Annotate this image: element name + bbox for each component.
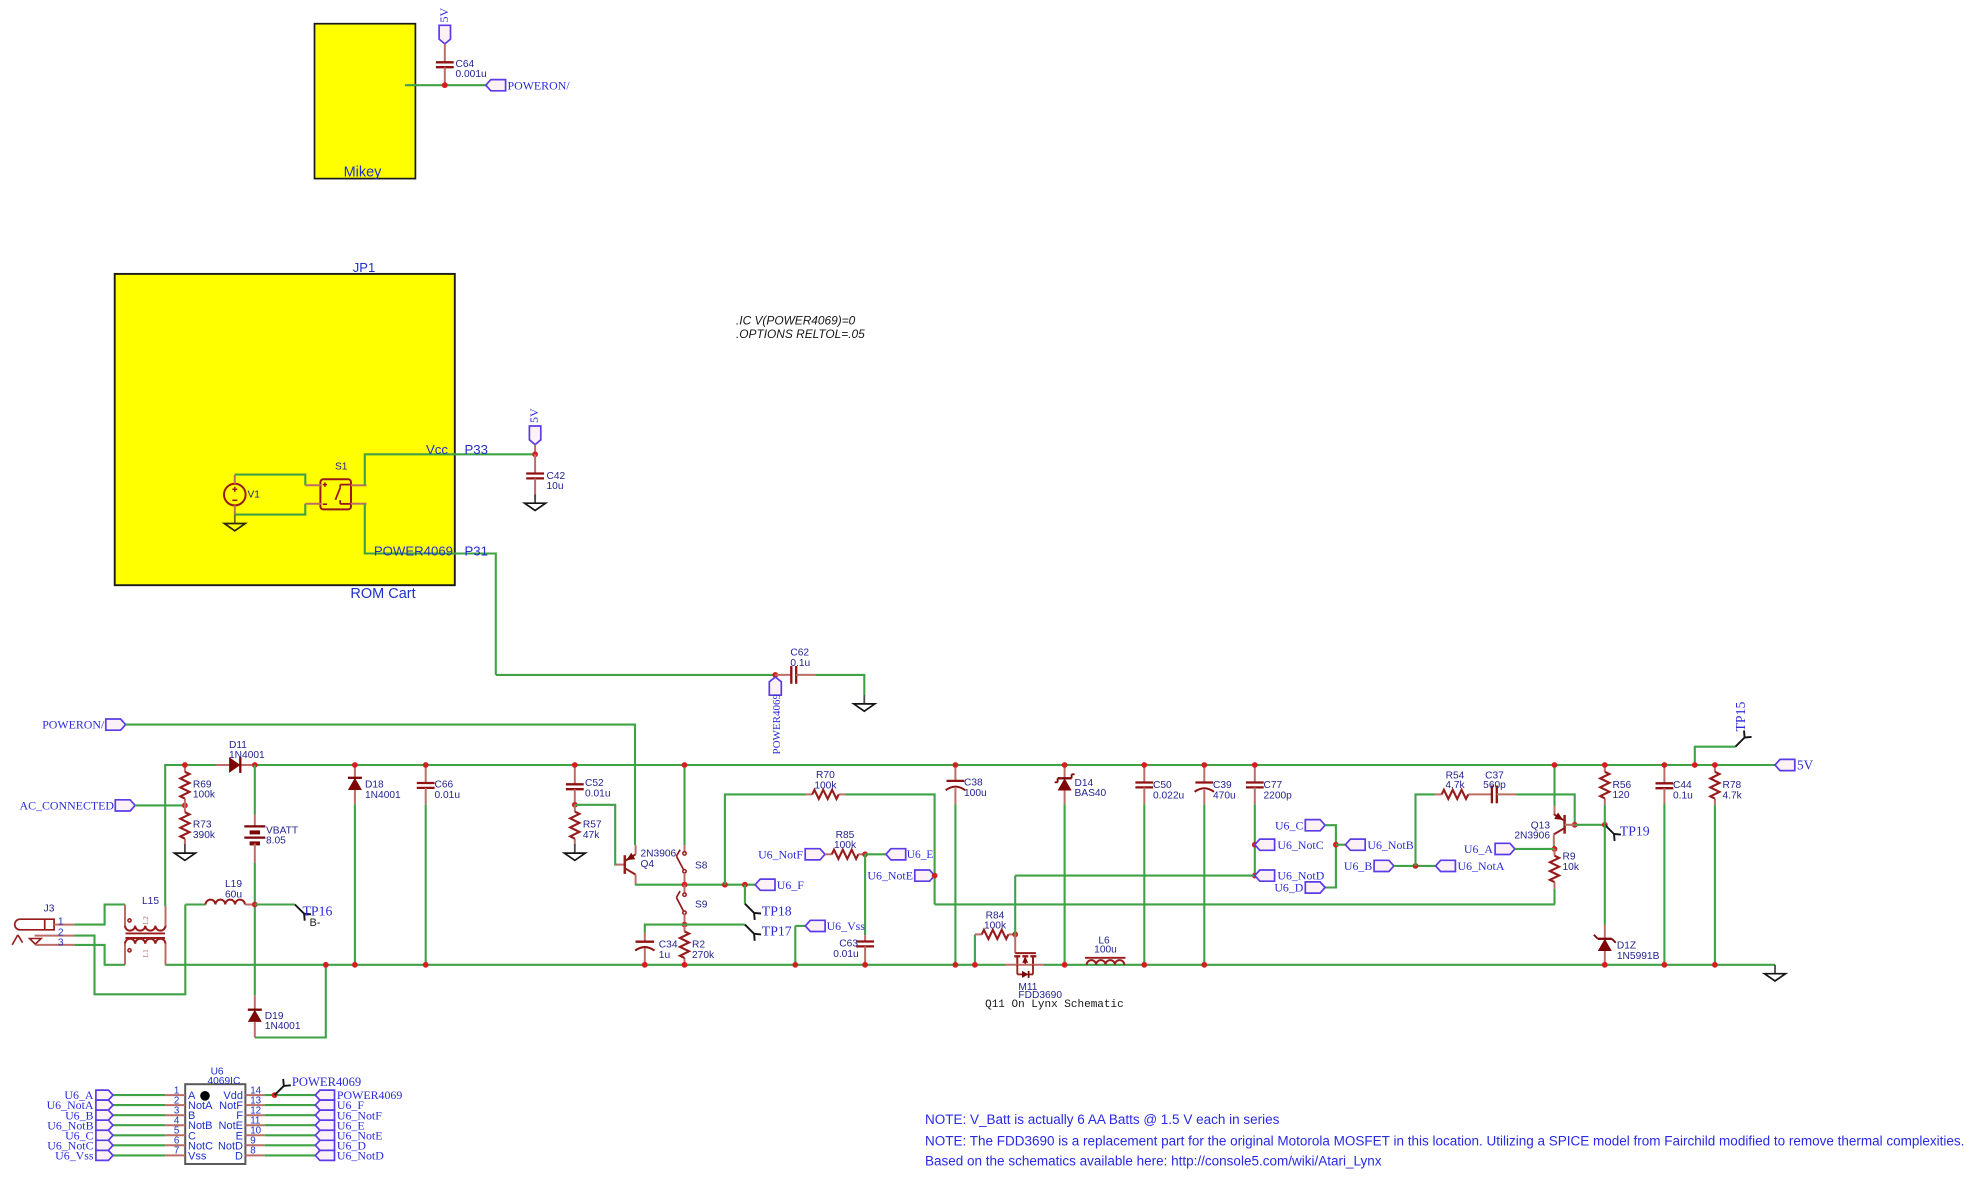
wire	[255, 965, 326, 1038]
junction	[862, 851, 868, 857]
pin 9 NotD	[245, 1144, 264, 1146]
svg-text:U6_NotE: U6_NotE	[867, 869, 913, 883]
capacitor C38	[954, 765, 956, 781]
svg-text:L2: L2	[141, 916, 150, 925]
junction	[352, 962, 358, 968]
svg-text:D: D	[235, 1150, 243, 1162]
wire	[74, 945, 125, 965]
svg-text:U6_Vss: U6_Vss	[827, 919, 866, 933]
diode D11	[216, 764, 255, 766]
junction	[532, 451, 538, 457]
block JP1 ROM Cart	[115, 274, 455, 585]
capacitor C64	[436, 61, 454, 63]
wire	[635, 884, 755, 886]
global label U6_NotF	[315, 1110, 334, 1120]
global label U6_E	[886, 849, 906, 860]
wire	[1254, 804, 1256, 875]
resistor R85	[825, 853, 832, 855]
junction	[1141, 762, 1147, 768]
junction	[1602, 822, 1608, 828]
pin 14 Vdd	[245, 1094, 264, 1096]
pin 3 B	[165, 1114, 185, 1116]
wire	[165, 964, 1005, 966]
global label 5V (right)	[1775, 759, 1795, 770]
wire	[255, 903, 295, 905]
transistor Q4	[615, 864, 625, 866]
junction	[642, 962, 648, 968]
resistor R57	[574, 805, 576, 812]
wire	[645, 925, 685, 933]
capacitor C77	[1254, 765, 1256, 783]
global label POWER4069	[315, 1090, 334, 1100]
junction	[1602, 762, 1608, 768]
capacitor C44	[1663, 765, 1665, 783]
svg-text:2N3906: 2N3906	[641, 849, 677, 860]
junction	[1712, 762, 1718, 768]
global label U6_B	[96, 1110, 113, 1120]
ic U6 4069IC	[185, 1084, 245, 1164]
global label U6_NotA	[1436, 860, 1456, 871]
wire	[254, 765, 256, 815]
svg-text:4069IC: 4069IC	[207, 1076, 240, 1087]
svg-text:0.022u: 0.022u	[1153, 790, 1184, 801]
junction	[682, 922, 688, 928]
wire	[1575, 824, 1605, 826]
connector J3	[15, 919, 54, 930]
capacitor C39	[1203, 765, 1205, 783]
global label U6_A	[96, 1090, 113, 1100]
junction	[1012, 932, 1018, 938]
svg-text:5V: 5V	[1797, 758, 1814, 773]
junction	[1252, 873, 1258, 879]
capacitor C50	[1143, 765, 1145, 783]
svg-text:POWER4069: POWER4069	[771, 694, 783, 755]
resistor R78	[1714, 765, 1716, 772]
svg-text:Based on the schematics availa: Based on the schematics available here: …	[925, 1154, 1382, 1169]
global label U6_NotC	[96, 1140, 113, 1150]
svg-text:P33: P33	[465, 442, 488, 457]
svg-text:100k: 100k	[984, 921, 1007, 932]
diode D18	[354, 765, 356, 778]
svg-text:0.001u: 0.001u	[456, 69, 487, 80]
wire	[113, 1104, 165, 1106]
svg-text:B-: B-	[310, 917, 321, 929]
power 5V (C42)	[529, 426, 540, 445]
svg-text:U6_Vss: U6_Vss	[55, 1149, 94, 1163]
svg-text:270k: 270k	[692, 950, 715, 961]
resistor R56	[1604, 765, 1606, 772]
svg-text:100k: 100k	[814, 780, 837, 791]
wire	[1416, 794, 1435, 866]
test point TP19	[1605, 825, 1614, 834]
junction	[572, 762, 578, 768]
ground (bottom right)	[1774, 965, 1776, 974]
wire	[1553, 765, 1555, 806]
junction	[862, 962, 868, 968]
diode D19	[254, 995, 256, 1010]
svg-text:Mikey: Mikey	[344, 165, 383, 181]
pin 11 NotE	[245, 1124, 264, 1126]
junction	[352, 762, 358, 768]
svg-text:470u: 470u	[1213, 790, 1236, 801]
svg-text:BAS40: BAS40	[1075, 788, 1107, 799]
junction	[572, 802, 578, 808]
svg-text:60u: 60u	[225, 889, 242, 900]
svg-text:Q4: Q4	[641, 859, 655, 870]
diode D14 (schottky)	[1064, 765, 1066, 778]
junction	[272, 1092, 278, 1098]
wire	[1604, 805, 1606, 825]
junction	[252, 902, 258, 908]
pin 10 E	[245, 1134, 264, 1136]
wire	[265, 1104, 316, 1106]
wire	[1714, 805, 1716, 964]
svg-text:2200p: 2200p	[1264, 790, 1293, 801]
svg-text:V1: V1	[248, 490, 261, 501]
junction	[722, 882, 728, 888]
svg-text:U6_NotA: U6_NotA	[1458, 859, 1505, 873]
svg-text:8.05: 8.05	[266, 836, 286, 847]
svg-text:POWERON/: POWERON/	[508, 78, 571, 92]
switch S1	[320, 479, 351, 509]
wire	[405, 84, 486, 86]
svg-text:0.1u: 0.1u	[1673, 790, 1693, 801]
svg-text:JP1: JP1	[353, 260, 375, 275]
svg-text:.IC V(POWER4069)=0: .IC V(POWER4069)=0	[736, 314, 856, 328]
svg-text:1N4001: 1N4001	[365, 790, 401, 801]
wire	[113, 1124, 165, 1126]
svg-text:390k: 390k	[193, 830, 216, 841]
svg-text:1u: 1u	[659, 950, 670, 961]
resistor R54	[1435, 793, 1442, 795]
global label U6_D	[315, 1140, 334, 1150]
wire	[1604, 825, 1606, 925]
test point TP17	[745, 925, 754, 934]
wire	[254, 863, 256, 995]
svg-text:Q11 On Lynx Schematic: Q11 On Lynx Schematic	[985, 999, 1124, 1011]
svg-text:100k: 100k	[834, 840, 857, 851]
global label U6_NotA	[96, 1100, 113, 1110]
global label U6_NotC	[1255, 839, 1275, 850]
junction	[1692, 762, 1698, 768]
junction	[442, 82, 448, 88]
wire	[354, 804, 356, 965]
wire	[1663, 804, 1665, 965]
svg-text:P31: P31	[465, 543, 488, 558]
pin 12 F	[245, 1114, 264, 1116]
wire	[1336, 844, 1346, 846]
svg-text:L15: L15	[142, 896, 159, 907]
wire	[185, 903, 205, 905]
wire	[113, 1134, 165, 1136]
svg-text:Vss: Vss	[188, 1150, 207, 1162]
wire	[265, 1154, 316, 1156]
wire	[165, 765, 1775, 906]
voltage source V1	[224, 484, 246, 506]
test point TP16	[295, 905, 304, 914]
junction	[423, 962, 429, 968]
wire	[725, 794, 806, 884]
wire	[1695, 747, 1736, 765]
wire	[74, 905, 125, 925]
svg-text:U6_NotF: U6_NotF	[758, 847, 803, 861]
svg-text:NOTE: The FDD3690 is a replace: NOTE: The FDD3690 is a replacement part …	[925, 1134, 1964, 1149]
wire	[865, 853, 886, 855]
wire	[265, 1134, 316, 1136]
switch S9	[684, 885, 686, 893]
svg-text:L1: L1	[141, 949, 150, 958]
svg-text:100k: 100k	[193, 790, 216, 801]
wire	[265, 1144, 316, 1146]
svg-text:47k: 47k	[583, 830, 600, 841]
wire	[1553, 889, 1555, 905]
wire	[235, 504, 305, 515]
svg-text:TP15: TP15	[1733, 702, 1748, 732]
wire	[113, 1114, 165, 1116]
svg-text:1: 1	[58, 916, 64, 927]
junction	[742, 882, 748, 888]
svg-text:1N5991B: 1N5991B	[1617, 951, 1660, 962]
wire	[1014, 876, 1016, 935]
global label U6_E	[315, 1120, 334, 1130]
wire	[846, 794, 935, 904]
capacitor C37	[1475, 793, 1492, 795]
junction	[1712, 962, 1718, 968]
junction	[1552, 846, 1558, 852]
pin 1 A	[165, 1094, 185, 1096]
wire	[685, 924, 745, 926]
svg-text:7: 7	[174, 1146, 179, 1157]
wire	[1394, 865, 1436, 867]
junction	[792, 962, 798, 968]
junction	[1062, 762, 1068, 768]
svg-text:TP18: TP18	[762, 903, 792, 918]
svg-text:U6_A: U6_A	[1464, 842, 1493, 856]
wire	[1044, 964, 1775, 966]
power 5V (Mikey)	[439, 25, 450, 44]
capacitor C52	[574, 765, 576, 784]
block Mikey	[315, 24, 416, 179]
svg-text:4.7k: 4.7k	[1723, 790, 1743, 801]
global label U6_NotE	[315, 1130, 334, 1140]
svg-text:S9: S9	[695, 900, 708, 911]
svg-text:5V: 5V	[527, 408, 541, 423]
wire	[135, 804, 185, 806]
junction	[1141, 962, 1147, 968]
svg-text:0.01u: 0.01u	[585, 788, 611, 799]
junction	[1572, 822, 1578, 828]
svg-text:U6_E: U6_E	[907, 849, 934, 861]
junction	[1333, 842, 1339, 848]
svg-text:TP17: TP17	[762, 923, 792, 938]
junction	[182, 803, 188, 809]
wire	[113, 1094, 165, 1096]
global label U6_NotB	[96, 1120, 113, 1130]
junction	[182, 762, 188, 768]
global label U6_F	[755, 879, 775, 890]
mosfet M11	[1014, 934, 1016, 953]
wire	[265, 1124, 316, 1126]
svg-text:.OPTIONS RELTOL=.05: .OPTIONS RELTOL=.05	[736, 327, 865, 341]
junction	[682, 762, 688, 768]
junction	[323, 962, 329, 968]
svg-text:1N4001: 1N4001	[229, 750, 265, 761]
wire	[974, 934, 976, 964]
svg-text:POWERON/: POWERON/	[42, 718, 105, 732]
global label POWER4069 (vertical)	[769, 677, 781, 695]
wire	[74, 905, 185, 995]
wire	[1064, 804, 1066, 965]
wire	[816, 675, 865, 695]
svg-text:U6_NotD: U6_NotD	[337, 1149, 384, 1163]
wire	[235, 475, 305, 486]
wire	[864, 854, 866, 935]
junction	[682, 962, 688, 968]
svg-text:POWER4069: POWER4069	[374, 543, 453, 558]
svg-text:TP19: TP19	[1620, 824, 1650, 839]
wire	[1553, 845, 1556, 849]
wire	[365, 504, 496, 675]
global label U6_Vss	[96, 1150, 113, 1160]
svg-text:U6_C: U6_C	[1275, 818, 1303, 832]
wire	[113, 1154, 165, 1156]
svg-text:U6_F: U6_F	[777, 878, 804, 892]
wire	[794, 926, 796, 965]
wire	[425, 804, 427, 965]
ground (C42)	[534, 494, 536, 503]
wire	[954, 804, 956, 965]
junction	[972, 962, 978, 968]
wire	[1203, 804, 1205, 965]
junction	[772, 672, 778, 678]
junction	[1602, 962, 1608, 968]
svg-text:S1: S1	[335, 462, 348, 473]
wire	[795, 925, 805, 927]
svg-text:0.01u: 0.01u	[833, 949, 859, 960]
svg-text:U6_D: U6_D	[1274, 881, 1303, 895]
wire	[496, 674, 776, 676]
junction	[953, 962, 959, 968]
diode D1Z (zener)	[1604, 925, 1606, 939]
ground (R57)	[574, 844, 576, 853]
junction	[1662, 962, 1668, 968]
svg-text:2N3906: 2N3906	[1514, 831, 1550, 842]
junction	[252, 762, 258, 768]
svg-text:0.1u: 0.1u	[790, 658, 810, 669]
wire	[126, 725, 635, 846]
wire	[575, 805, 617, 865]
resistor R9	[1554, 849, 1556, 856]
svg-text:NOTE: V_Batt is actually 6 AA: NOTE: V_Batt is actually 6 AA Batts @ 1.…	[925, 1112, 1280, 1127]
resistor R69	[184, 765, 186, 772]
svg-text:100u: 100u	[1094, 945, 1117, 956]
wire	[1015, 875, 1255, 877]
junction	[1252, 842, 1258, 848]
global label U6_F	[315, 1100, 334, 1110]
junction	[423, 762, 429, 768]
svg-text:5V: 5V	[437, 8, 451, 23]
wire	[1143, 804, 1145, 965]
ground (V1)	[234, 515, 236, 524]
svg-text:4.7k: 4.7k	[1445, 780, 1465, 791]
svg-text:560p: 560p	[1483, 780, 1506, 791]
junction	[682, 882, 688, 888]
global label U6_C	[96, 1130, 113, 1140]
svg-text:Vcc: Vcc	[426, 442, 448, 457]
pin 6 NotC	[165, 1144, 185, 1146]
wire	[265, 1094, 316, 1096]
svg-text:U6_NotB: U6_NotB	[1367, 838, 1413, 852]
capacitor C34	[644, 933, 646, 942]
svg-text:S8: S8	[695, 861, 708, 872]
wire	[1325, 825, 1336, 887]
wire	[935, 903, 1555, 905]
wire	[113, 1144, 165, 1146]
junction	[1201, 762, 1207, 768]
wire	[365, 454, 535, 485]
resistor R2	[684, 925, 686, 932]
svg-text:U6_NotC: U6_NotC	[1277, 838, 1323, 852]
pin 5 C	[165, 1134, 185, 1136]
svg-text:J3: J3	[44, 904, 55, 915]
wire	[1515, 848, 1555, 850]
junction	[953, 762, 959, 768]
global label U6_NotD	[315, 1150, 334, 1160]
svg-text:120: 120	[1613, 790, 1630, 801]
junction	[1201, 962, 1207, 968]
svg-text:ROM Cart: ROM Cart	[350, 586, 415, 602]
svg-text:U6_B: U6_B	[1344, 859, 1372, 873]
capacitor C42	[534, 454, 536, 473]
junction	[932, 873, 938, 879]
junction	[1662, 762, 1668, 768]
svg-text:POWER4069: POWER4069	[292, 1075, 361, 1089]
junction	[1552, 762, 1558, 768]
svg-text:1N4001: 1N4001	[265, 1021, 301, 1032]
pin 13 NotF	[245, 1104, 264, 1106]
wire	[1516, 794, 1575, 824]
ground (R73)	[184, 844, 186, 853]
junction	[1062, 962, 1068, 968]
svg-text:100u: 100u	[964, 788, 987, 799]
capacitor C66	[425, 765, 427, 783]
junction	[1252, 762, 1258, 768]
wire	[683, 765, 685, 845]
capacitor C62	[775, 674, 791, 676]
resistor R73	[184, 805, 186, 812]
svg-text:AC_CONNECTED: AC_CONNECTED	[20, 799, 115, 813]
ground (C62)	[863, 695, 865, 704]
wire	[744, 885, 746, 904]
global label POWERON/ (top)	[486, 80, 506, 91]
pin 7 Vss	[165, 1154, 185, 1156]
pin 4 NotB	[165, 1124, 185, 1126]
pin 2 NotA	[165, 1104, 185, 1106]
svg-text:8: 8	[250, 1146, 256, 1157]
svg-text:10k: 10k	[1563, 862, 1580, 873]
junction	[1413, 863, 1419, 869]
svg-text:0.01u: 0.01u	[435, 790, 461, 801]
pin 8 D	[245, 1154, 264, 1156]
svg-text:10u: 10u	[547, 481, 564, 492]
inductor L6	[1085, 957, 1126, 959]
wire	[265, 1114, 316, 1116]
svg-text:3: 3	[58, 937, 64, 948]
wire	[444, 44, 446, 62]
